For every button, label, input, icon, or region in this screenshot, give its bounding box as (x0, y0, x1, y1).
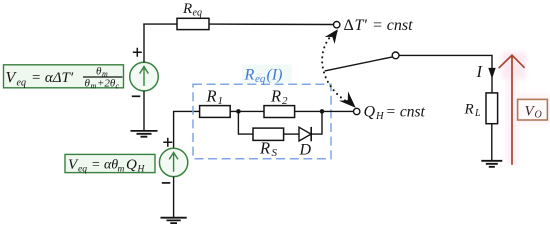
svg-text:+2θ: +2θ (97, 78, 116, 90)
svg-text:L: L (474, 108, 481, 119)
svg-text:= αθ: = αθ (91, 158, 118, 173)
resistor RL (486, 93, 498, 124)
label RL (464, 102, 482, 120)
svg-text:R: R (182, 1, 192, 17)
output arrow V_O (499, 55, 525, 165)
wire riser source1 to top rail (143, 24, 145, 63)
resistor RS (253, 128, 284, 140)
svg-text:eq: eq (78, 165, 87, 175)
wire source2 riser (174, 111, 200, 148)
pink halo around output arrow (502, 52, 550, 165)
svg-text:eq: eq (193, 8, 202, 19)
current source V_eq1 (top) (130, 62, 159, 91)
svg-text:(I): (I) (267, 67, 283, 84)
label Q_H = cnst (364, 104, 426, 123)
wire switch to load (399, 55, 492, 93)
node Q_H terminal (354, 108, 360, 114)
svg-text:R: R (206, 87, 217, 106)
svg-text:Δ: Δ (344, 17, 354, 34)
svg-text:eq: eq (255, 73, 266, 85)
switch blade (325, 57, 393, 71)
label R2 (270, 87, 288, 108)
svg-text:R: R (464, 102, 474, 118)
ground source 1 (131, 131, 158, 137)
label box V_eq = alpha DeltaT' theta_m/(theta_m+2theta_c) (4, 65, 124, 91)
wire top rail left (143, 23, 178, 25)
wire diode up to node B (311, 111, 322, 134)
svg-text:D: D (299, 142, 312, 159)
junction node B (320, 109, 325, 114)
label R_eq (182, 1, 202, 19)
junction node A (236, 109, 241, 114)
wire source1 to ground (143, 91, 145, 131)
svg-text:S: S (272, 147, 278, 159)
node DeltaT' terminal (334, 22, 340, 28)
svg-text:= cnst: = cnst (386, 104, 426, 121)
wire node A down to RS branch (238, 111, 253, 134)
svg-text:T′: T′ (355, 17, 368, 34)
svg-text:R: R (270, 87, 281, 106)
plus sign source 2 (163, 138, 172, 147)
ground load (481, 161, 502, 167)
resistor R1 (200, 106, 231, 118)
resistor R_eq (177, 18, 209, 29)
svg-text:R: R (244, 67, 255, 84)
throw arrowhead to DeltaT' (325, 29, 338, 44)
wire R1 to node A (230, 110, 264, 112)
svg-text:= cnst: = cnst (372, 17, 413, 34)
label box V_eq = alpha theta_m Q_H (65, 154, 155, 174)
label R1 (206, 87, 224, 108)
current source V_eq2 (bottom) (159, 148, 187, 176)
svg-text:Q: Q (364, 104, 376, 121)
label box V_O (518, 99, 548, 120)
wire source2 to ground (173, 177, 175, 218)
diode D (299, 127, 311, 141)
svg-text:Q: Q (126, 157, 137, 173)
minus sign source 1 (132, 95, 141, 97)
dotted throw arc (322, 32, 352, 105)
wire RS to diode (284, 133, 299, 135)
label R_eq(I) (242, 65, 292, 86)
svg-text:= αΔT′: = αΔT′ (31, 70, 74, 86)
svg-text:O: O (535, 110, 542, 121)
svg-text:H: H (375, 111, 385, 122)
svg-text:1: 1 (218, 95, 224, 107)
ground source 2 (161, 218, 187, 223)
svg-text:H: H (137, 165, 146, 175)
dashed box R_eq(I) (193, 84, 331, 159)
resistor R2 (264, 106, 295, 118)
minus sign source 2 (162, 182, 171, 184)
svg-text:2: 2 (282, 95, 288, 107)
current arrow I (488, 68, 495, 79)
wire top rail right (209, 23, 334, 25)
svg-text:m: m (118, 165, 125, 175)
svg-text:eq: eq (17, 78, 26, 89)
label RS (259, 139, 278, 160)
wire R2 to node B (295, 110, 354, 112)
wire RL to ground (491, 124, 493, 161)
svg-text:R: R (259, 139, 270, 158)
switch pivot terminal (392, 52, 399, 59)
plus sign source 1 (133, 48, 142, 57)
throw arrowhead to Q_H (339, 91, 356, 107)
svg-text:c: c (116, 82, 120, 91)
svg-text:m: m (91, 82, 97, 91)
